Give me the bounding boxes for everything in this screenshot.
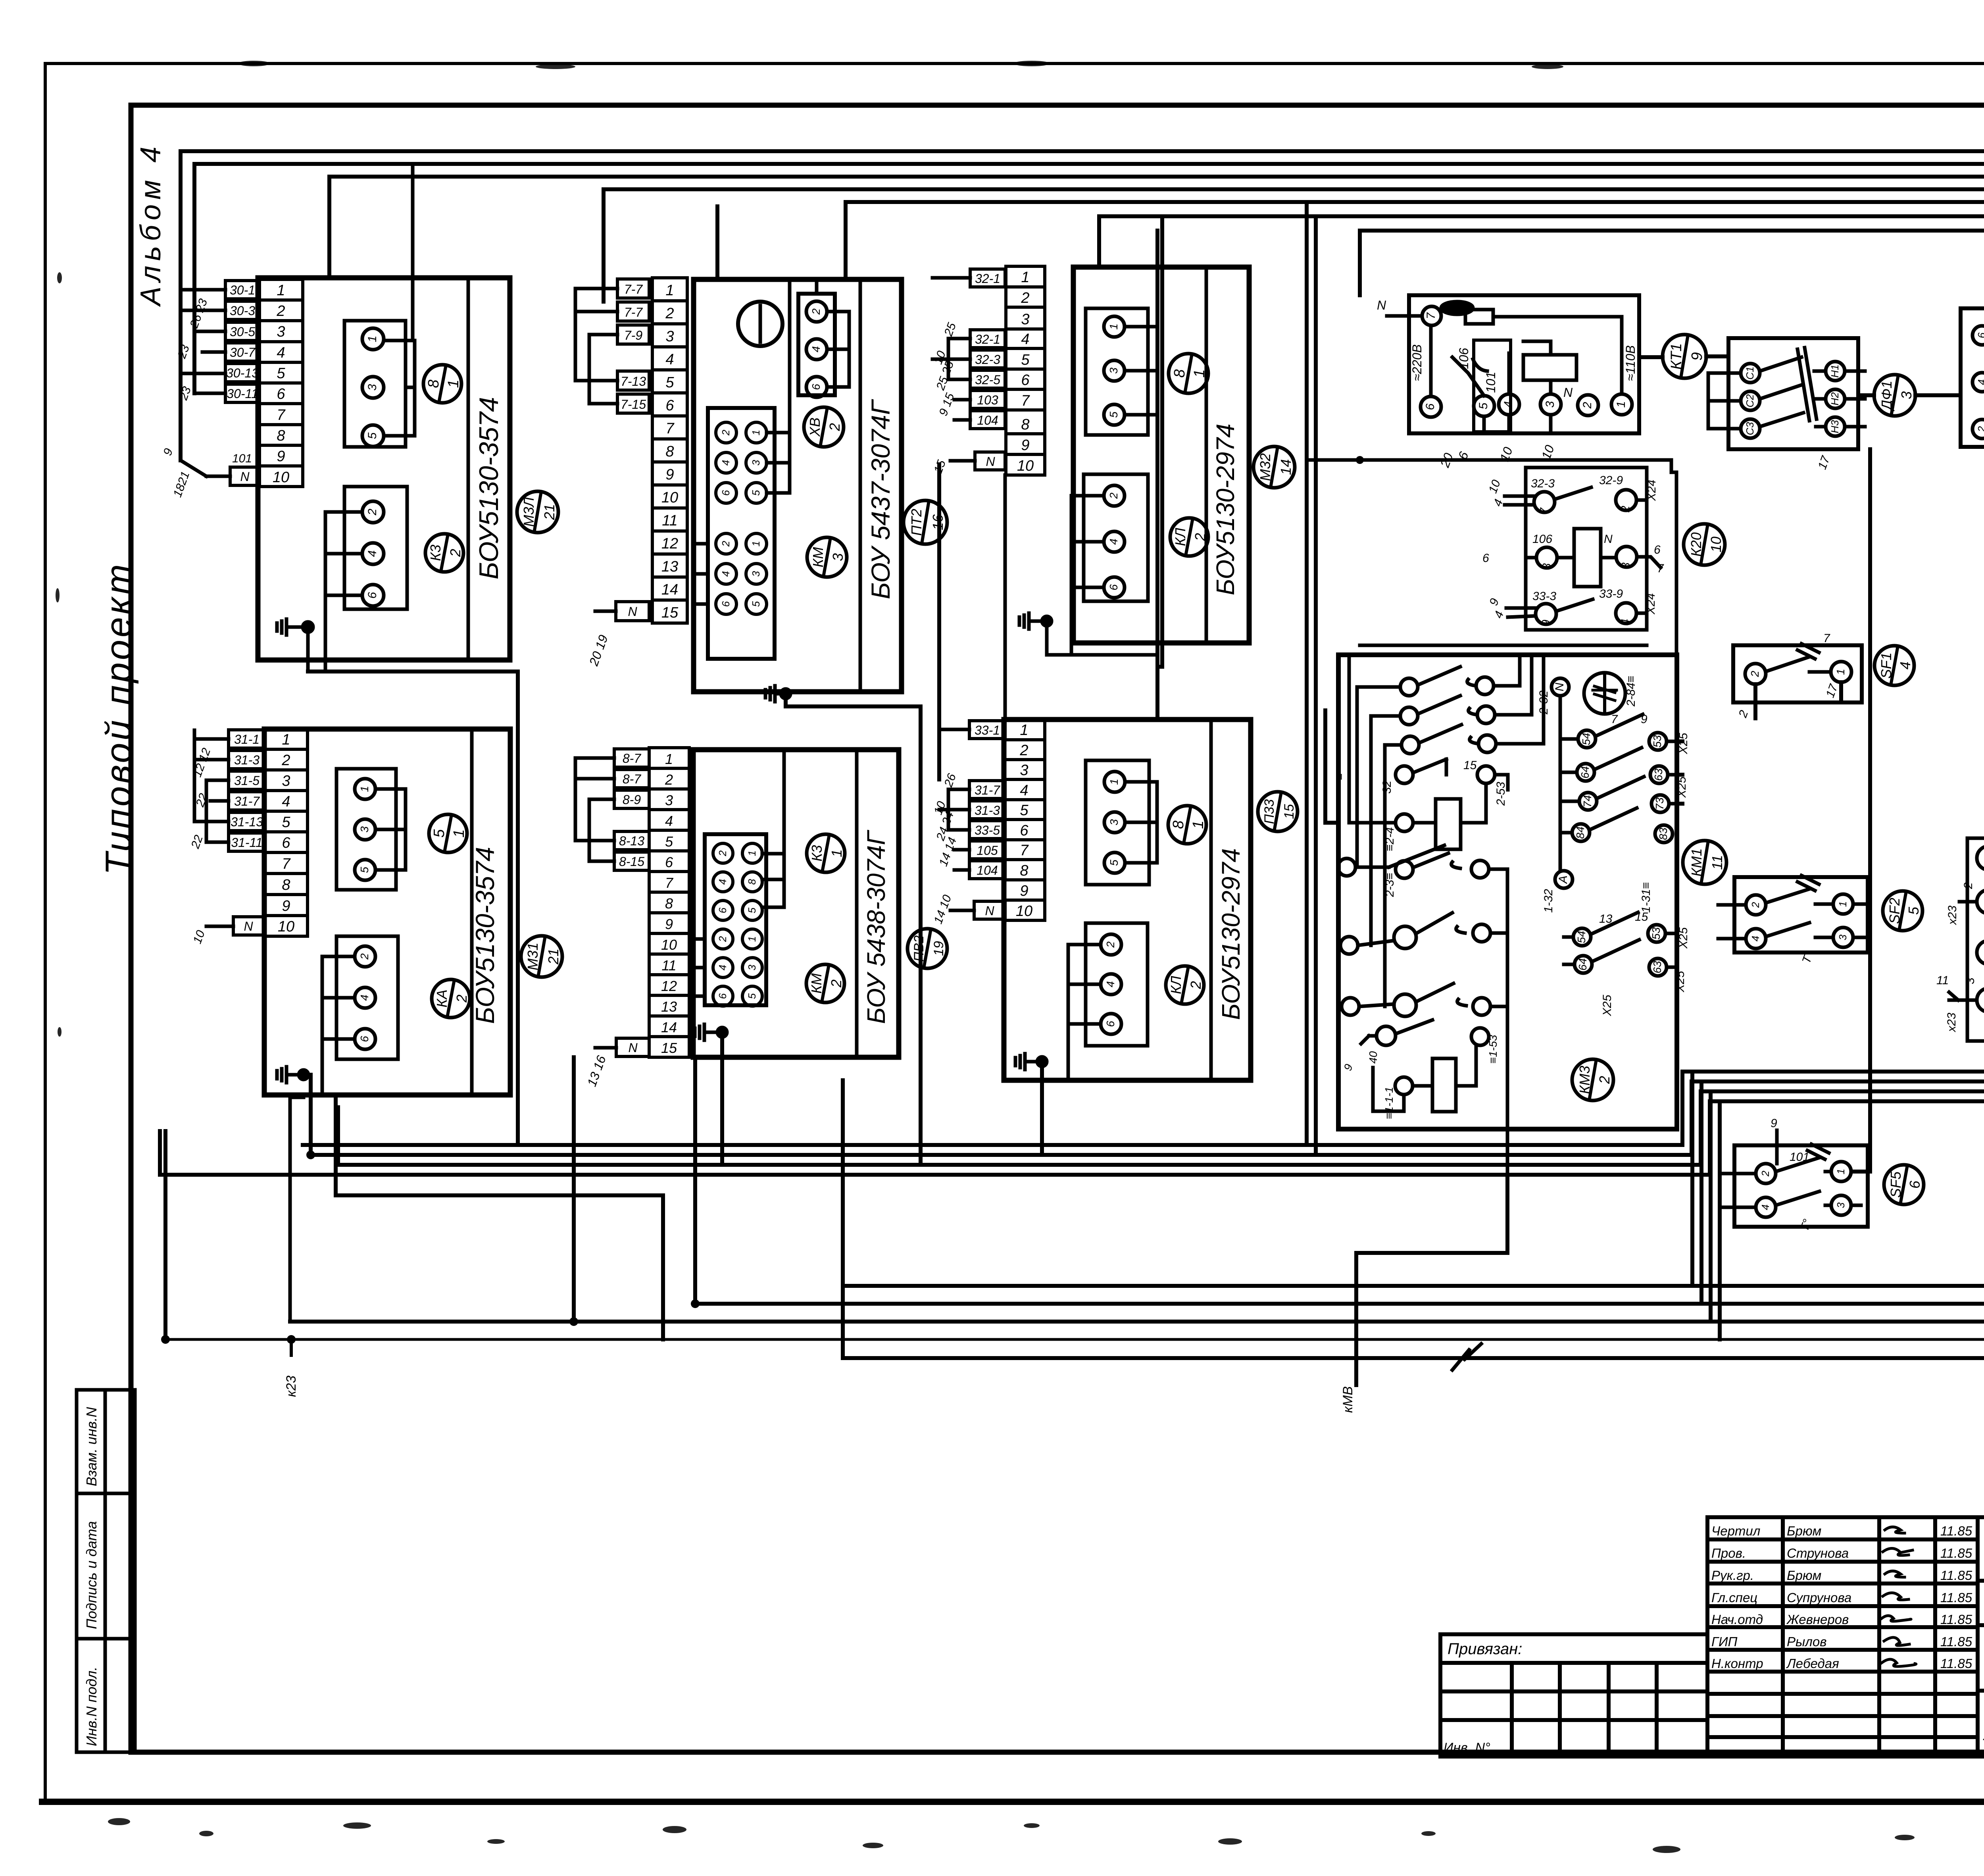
svg-text:11.85: 11.85 (1940, 1524, 1972, 1538)
circle 10/К20 (1684, 524, 1725, 565)
привязан box (1440, 1634, 1707, 1757)
svg-text:2: 2 (1581, 402, 1594, 409)
svg-text:32-1: 32-1 (975, 271, 1000, 286)
circle 6/SF5 (1884, 1165, 1924, 1204)
svg-text:6: 6 (1976, 332, 1984, 338)
svg-text:5: 5 (1905, 906, 1922, 915)
svg-text:5: 5 (1021, 352, 1030, 368)
E ground (695, 1024, 727, 1040)
svg-text:73: 73 (1653, 797, 1666, 810)
svg-text:6: 6 (1107, 584, 1120, 591)
svg-text:8: 8 (1170, 820, 1187, 829)
svg-text:53: 53 (1651, 735, 1663, 748)
svg-text:11: 11 (661, 957, 676, 974)
svg-text:Жевнеров: Жевнеров (1786, 1612, 1849, 1627)
svg-text:7: 7 (665, 875, 674, 891)
wire above KM1 (1360, 644, 1647, 647)
strip E numbers 1-15 (649, 748, 689, 1057)
svg-text:40: 40 (1367, 1051, 1379, 1064)
A circle 1/8 (423, 365, 462, 403)
svg-text:5: 5 (1108, 860, 1120, 866)
svg-text:5: 5 (665, 374, 674, 391)
svg-text:31-11: 31-11 (231, 835, 262, 850)
svg-text:N: N (240, 469, 250, 484)
svg-text:Супрунова: Супрунова (1787, 1590, 1851, 1605)
svg-text:2: 2 (1619, 506, 1632, 513)
svg-text:11.85: 11.85 (1940, 1590, 1972, 1605)
svg-text:6: 6 (1020, 822, 1029, 839)
svg-text:1: 1 (1021, 269, 1029, 286)
svg-text:5: 5 (366, 432, 379, 439)
svg-text:2: 2 (1188, 981, 1204, 989)
svg-text:КА: КА (434, 989, 450, 1007)
svg-text:Х24: Х24 (1644, 593, 1657, 615)
bottom long bundles (160, 672, 1984, 1175)
svg-text:4: 4 (1021, 331, 1029, 348)
top bus wires (181, 151, 1984, 460)
svg-text:С2: С2 (1744, 394, 1756, 408)
svg-text:4: 4 (1897, 662, 1913, 670)
svg-text:С3: С3 (1744, 422, 1756, 435)
svg-text:7-9: 7-9 (624, 328, 642, 342)
svg-text:4: 4 (358, 995, 371, 1001)
C circle 14/М32 (1253, 446, 1295, 488)
svg-text:Взам. инв.N: Взам. инв.N (83, 1407, 100, 1486)
svg-text:≡1-1-1: ≡1-1-1 (1383, 1087, 1395, 1119)
svg-text:15: 15 (1282, 804, 1297, 819)
D circle 21/М31 (521, 936, 562, 977)
svg-text:4: 4 (1749, 936, 1761, 941)
svg-text:Подпись и дата: Подпись и дата (83, 1521, 100, 1629)
E circle 2/КМ (806, 964, 844, 1002)
F inner box 1 (1086, 760, 1149, 885)
lower-left contact rows (1338, 845, 1507, 1175)
svg-text:1: 1 (1108, 779, 1120, 785)
svg-text:21: 21 (545, 949, 561, 965)
svg-text:ДФ1: ДФ1 (1878, 381, 1895, 412)
svg-text:103: 103 (977, 393, 998, 407)
svg-text:1: 1 (366, 336, 379, 342)
svg-text:3: 3 (358, 826, 371, 833)
svg-text:6: 6 (277, 386, 285, 402)
svg-text:104: 104 (977, 413, 998, 427)
svg-text:N: N (1563, 385, 1573, 400)
middle coil row (1349, 655, 1508, 878)
D circle 2/КА (432, 979, 470, 1018)
svg-text:4: 4 (810, 346, 822, 352)
svg-text:8: 8 (277, 427, 285, 444)
circle 4/SF1 (1874, 646, 1914, 685)
svg-text:3: 3 (1898, 391, 1915, 399)
svg-text:11: 11 (1709, 855, 1725, 870)
left margin stamp cells (77, 1390, 135, 1752)
svg-text:30-11: 30-11 (227, 387, 258, 401)
svg-text:2: 2 (720, 541, 732, 547)
svg-text:1-32: 1-32 (1542, 889, 1555, 913)
svg-text:4: 4 (1107, 539, 1120, 545)
svg-text:3: 3 (366, 384, 379, 391)
svg-text:Инв.N подл.: Инв.N подл. (83, 1667, 100, 1746)
svg-text:КЛ: КЛ (1168, 976, 1184, 994)
vertical drop to ЭМ-30 (1356, 1175, 1507, 1385)
svg-text:ГИП: ГИП (1711, 1634, 1738, 1649)
svg-text:14: 14 (661, 581, 678, 598)
svg-text:КМ: КМ (808, 973, 825, 993)
svg-text:4: 4 (665, 351, 674, 368)
svg-text:32-5: 32-5 (975, 373, 1000, 387)
strip E labels (614, 749, 649, 1056)
svg-text:5: 5 (431, 829, 448, 838)
right contact group lower (1564, 912, 1677, 976)
E circle grid 2x6 (705, 834, 766, 1005)
svg-text:4: 4 (1759, 1204, 1771, 1210)
strip B numbers 1-15 (652, 278, 687, 623)
svg-text:101: 101 (1484, 372, 1498, 393)
svg-text:10: 10 (1017, 458, 1034, 474)
svg-text:Н.контр: Н.контр (1711, 1656, 1763, 1671)
svg-text:5: 5 (1107, 412, 1120, 418)
svg-text:≡1-53: ≡1-53 (1487, 1035, 1499, 1064)
svg-text:2-3≡: 2-3≡ (1383, 873, 1396, 897)
svg-text:31-7: 31-7 (234, 794, 260, 808)
svg-text:КМ3: КМ3 (1576, 1066, 1593, 1094)
B circle 3/КМ (807, 537, 847, 577)
svg-text:БОУ 5437-3074Г: БОУ 5437-3074Г (866, 399, 895, 599)
svg-text:2: 2 (276, 303, 285, 319)
svg-text:6: 6 (717, 993, 729, 999)
svg-text:13: 13 (661, 999, 677, 1015)
svg-text:Пров.: Пров. (1711, 1546, 1746, 1560)
strip F left wires (939, 729, 974, 910)
svg-text:8-7: 8-7 (623, 772, 641, 786)
svg-text:1: 1 (746, 936, 758, 942)
svg-text:1: 1 (1835, 1169, 1847, 1174)
svg-text:Нач.отд: Нач.отд (1711, 1612, 1763, 1627)
svg-text:1: 1 (750, 541, 762, 546)
svg-text:7-15: 7-15 (621, 397, 646, 412)
svg-text:2-32: 2-32 (1537, 691, 1550, 715)
break mark on lower wire (1452, 1344, 1481, 1370)
svg-text:2: 2 (720, 429, 732, 436)
C circle 2/КЛ (1170, 518, 1208, 556)
svg-text:11.85: 11.85 (1940, 1612, 1972, 1627)
svg-text:1: 1 (1107, 323, 1120, 330)
svg-text:33-9: 33-9 (1599, 587, 1623, 600)
strip A left wires (181, 290, 230, 476)
svg-text:64: 64 (1579, 766, 1591, 778)
svg-text:Х25: Х25 (1677, 927, 1690, 949)
svg-text:8: 8 (746, 879, 758, 885)
svg-text:≡: ≡ (1333, 773, 1346, 780)
svg-text:4: 4 (1619, 619, 1632, 625)
svg-text:2: 2 (1192, 533, 1208, 541)
svg-text:3: 3 (750, 460, 762, 466)
svg-text:2: 2 (1976, 426, 1984, 432)
svg-text:4: 4 (720, 571, 732, 577)
svg-text:30-13: 30-13 (226, 366, 259, 380)
svg-text:Х24: Х24 (1645, 480, 1658, 501)
svg-text:2: 2 (1596, 1076, 1613, 1084)
svg-text:1: 1 (451, 829, 467, 837)
svg-text:74: 74 (1581, 795, 1594, 807)
svg-text:2: 2 (717, 936, 729, 942)
svg-text:КТ1: КТ1 (1668, 343, 1685, 370)
svg-text:2: 2 (454, 995, 470, 1003)
svg-text:2: 2 (717, 850, 729, 856)
terminal strip A numbers (260, 279, 303, 487)
svg-text:19: 19 (931, 941, 946, 956)
svg-text:32-1: 32-1 (975, 332, 1000, 346)
svg-text:7: 7 (282, 856, 291, 872)
svg-text:3: 3 (1619, 562, 1632, 569)
svg-text:30-5: 30-5 (230, 325, 255, 339)
svg-text:7-13: 7-13 (621, 374, 646, 389)
svg-text:11.85: 11.85 (1940, 1656, 1972, 1671)
svg-text:3: 3 (1837, 934, 1849, 940)
svg-text:2: 2 (665, 305, 674, 322)
svg-text:2-53: 2-53 (1494, 782, 1507, 806)
svg-text:Струнова: Струнова (1787, 1546, 1849, 1560)
D circle 1/5 (429, 814, 467, 852)
svg-text:6: 6 (717, 907, 729, 913)
svg-text:6: 6 (1424, 403, 1437, 410)
svg-text:БОУ 5438-3074Г: БОУ 5438-3074Г (862, 830, 890, 1024)
N circles (1551, 678, 1573, 888)
svg-text:4: 4 (1976, 379, 1984, 385)
C circle 1/8 (1169, 354, 1208, 393)
svg-text:14: 14 (661, 1019, 677, 1035)
svg-text:15: 15 (661, 604, 679, 621)
B ground (765, 686, 790, 702)
svg-text:С1: С1 (1744, 366, 1756, 379)
strip F numbers (1004, 720, 1045, 920)
svg-text:Н3: Н3 (1829, 420, 1841, 433)
crossed circle NO8 (1584, 673, 1625, 714)
verticals joining bundles (165, 464, 1720, 1358)
svg-text:33-3: 33-3 (1532, 590, 1556, 603)
C inner box 1 (1086, 308, 1148, 435)
strip E left wires (575, 758, 616, 1048)
svg-text:1: 1 (665, 751, 673, 767)
svg-text:8: 8 (1540, 563, 1553, 570)
svg-text:Рылов: Рылов (1787, 1634, 1826, 1649)
svg-text:SF5: SF5 (1888, 1171, 1904, 1198)
circle 5/SF2 (1883, 891, 1922, 931)
svg-text:7: 7 (1657, 562, 1664, 575)
svg-text:2: 2 (281, 752, 290, 769)
svg-text:2: 2 (1021, 290, 1029, 306)
svg-text:53: 53 (1650, 927, 1662, 940)
svg-text:SF1: SF1 (1878, 652, 1894, 679)
svg-text:5: 5 (282, 814, 290, 831)
title block: signature table (1707, 1517, 1978, 1757)
svg-text:7: 7 (1538, 507, 1551, 514)
svg-text:1: 1 (1837, 901, 1849, 907)
svg-text:2: 2 (810, 308, 822, 315)
F inner box 2 (1086, 923, 1148, 1046)
svg-text:3: 3 (1021, 311, 1029, 328)
svg-text:9: 9 (665, 466, 674, 483)
svg-text:ПВ2: ПВ2 (911, 935, 927, 962)
module A body (258, 278, 510, 660)
svg-text:N: N (985, 904, 994, 918)
svg-text:4: 4 (717, 965, 729, 970)
strip C left wires (932, 278, 975, 461)
svg-text:1: 1 (750, 430, 762, 435)
A inner terminal box 1 (344, 321, 406, 447)
svg-text:7: 7 (1425, 312, 1438, 319)
strip B left wires (575, 289, 617, 611)
svg-text:Рук.гр.: Рук.гр. (1711, 1568, 1754, 1583)
svg-text:КМ: КМ (810, 547, 826, 567)
svg-text:11.85: 11.85 (1940, 1634, 1972, 1649)
svg-text:11: 11 (662, 512, 677, 529)
svg-text:106: 106 (1532, 533, 1552, 546)
B connector 3-circle box (798, 294, 835, 395)
svg-text:3: 3 (665, 792, 673, 808)
svg-text:10: 10 (278, 918, 294, 935)
svg-text:N: N (628, 604, 637, 619)
A inner terminal box 2 (344, 487, 407, 609)
svg-text:3: 3 (750, 571, 762, 577)
svg-text:7: 7 (1020, 842, 1029, 859)
svg-text:Н2: Н2 (1829, 392, 1841, 406)
svg-text:31-3: 31-3 (975, 803, 1000, 818)
svg-text:16: 16 (930, 514, 946, 530)
svg-text:2: 2 (1019, 742, 1028, 759)
svg-text:2: 2 (1104, 941, 1117, 948)
terminal strip A wire labels (225, 281, 260, 485)
svg-text:И2: И2 (1982, 993, 1984, 1007)
misc connecting wires middle (1325, 356, 1961, 1172)
F circle 1/8 (1168, 806, 1207, 844)
svg-text:Лебедая: Лебедая (1786, 1656, 1839, 1671)
svg-text:8: 8 (665, 895, 673, 912)
svg-text:8: 8 (282, 877, 290, 893)
svg-text:4: 4 (366, 550, 379, 557)
svg-text:N: N (628, 1041, 638, 1055)
svg-text:2: 2 (366, 508, 379, 516)
svg-text:5: 5 (750, 601, 762, 607)
svg-text:31-3: 31-3 (234, 753, 260, 767)
svg-text:7: 7 (1021, 393, 1030, 409)
svg-text:кМВ: кМВ (1340, 1386, 1355, 1413)
svg-text:6: 6 (665, 854, 673, 870)
svg-text:Х25: Х25 (1677, 733, 1690, 754)
svg-text:3: 3 (1020, 762, 1028, 779)
svg-text:О: О (1982, 854, 1984, 862)
svg-text:9: 9 (1540, 620, 1553, 626)
A circle 21/M3L (517, 491, 558, 533)
svg-text:М31: М31 (525, 943, 541, 970)
long vertical from DF1 region down to SF5 (1852, 449, 1870, 1172)
svg-text:10: 10 (1708, 537, 1724, 552)
svg-text:7-7: 7-7 (624, 305, 643, 319)
svg-text:13: 13 (1599, 912, 1613, 925)
svg-text:6: 6 (665, 397, 674, 414)
C strip bottom feeder down to F (1004, 475, 1007, 720)
svg-text:54: 54 (1575, 931, 1588, 943)
svg-text:1: 1 (1191, 369, 1208, 377)
svg-text:1-31≡: 1-31≡ (1640, 882, 1653, 913)
svg-text:3: 3 (1107, 368, 1120, 374)
svg-text:3: 3 (1964, 977, 1977, 984)
svg-text:5: 5 (665, 833, 673, 850)
svg-text:9: 9 (1689, 352, 1705, 360)
svg-text:9: 9 (282, 898, 290, 914)
svg-text:3: 3 (665, 328, 674, 345)
svg-text:1: 1 (1615, 401, 1628, 408)
wire through middle right, horizontal feed above K20 (1307, 458, 1671, 462)
svg-text:6: 6 (1907, 1180, 1923, 1189)
svg-text:М32: М32 (1257, 453, 1273, 481)
strip D numbers (265, 729, 308, 936)
svg-text:БОУ5130-2974: БОУ5130-2974 (1211, 423, 1240, 595)
svg-text:Брюм: Брюм (1787, 1568, 1821, 1583)
svg-text:Брюм: Брюм (1787, 1524, 1821, 1538)
svg-text:84: 84 (1574, 826, 1586, 839)
svg-text:6: 6 (1654, 543, 1661, 556)
svg-text:1: 1 (277, 282, 285, 299)
svg-text:8: 8 (665, 443, 674, 460)
svg-text:П33: П33 (1262, 799, 1277, 824)
svg-text:4: 4 (1502, 401, 1515, 408)
svg-text:2: 2 (1759, 1170, 1771, 1177)
circle 3/ДФ1 (1874, 375, 1915, 416)
svg-text:9: 9 (277, 448, 285, 465)
svg-text:N: N (1377, 298, 1386, 312)
svg-text:7-7: 7-7 (624, 282, 643, 296)
C feeder verticals down to group F (1157, 202, 1316, 1155)
svg-text:83: 83 (1657, 827, 1669, 840)
svg-text:1: 1 (665, 282, 674, 299)
svg-text:30-3: 30-3 (230, 304, 255, 318)
svg-text:54: 54 (1580, 733, 1592, 745)
svg-text:5: 5 (746, 907, 758, 913)
svg-text:6: 6 (810, 384, 822, 390)
svg-text:N: N (986, 454, 995, 469)
svg-text:3: 3 (1835, 1202, 1847, 1208)
svg-text:2: 2 (1749, 902, 1761, 908)
svg-text:8: 8 (425, 379, 442, 388)
svg-text:8: 8 (1021, 416, 1029, 433)
svg-text:6: 6 (1482, 552, 1489, 565)
svg-text:6: 6 (358, 1036, 371, 1042)
svg-text:33-1: 33-1 (975, 723, 1000, 737)
svg-text:Чертил: Чертил (1711, 1524, 1760, 1538)
svg-text:10: 10 (273, 469, 289, 486)
svg-text:Типовой проект: Типовой проект (98, 562, 139, 875)
B circle 2/ХВ (804, 407, 844, 447)
F circle 15/П33 (1258, 792, 1298, 831)
A circle 2/K3 (425, 534, 463, 572)
svg-text:5: 5 (1477, 402, 1490, 409)
svg-text:2: 2 (1107, 493, 1120, 499)
svg-text:БОУ5130-2974: БОУ5130-2974 (1217, 848, 1245, 1020)
svg-text:х23: х23 (1946, 905, 1959, 925)
svg-text:1: 1 (282, 731, 290, 748)
svg-text:А: А (1557, 875, 1570, 884)
svg-text:31-5: 31-5 (234, 773, 260, 788)
svg-text:101: 101 (1790, 1151, 1809, 1164)
svg-text:ПТ2: ПТ2 (908, 509, 925, 536)
svg-text:7: 7 (1823, 632, 1830, 645)
svg-text:Н1: Н1 (1829, 364, 1841, 377)
svg-text:4: 4 (282, 793, 290, 810)
D inner box 2 (336, 936, 398, 1059)
svg-text:31-1: 31-1 (234, 732, 260, 747)
svg-text:64: 64 (1576, 958, 1589, 970)
